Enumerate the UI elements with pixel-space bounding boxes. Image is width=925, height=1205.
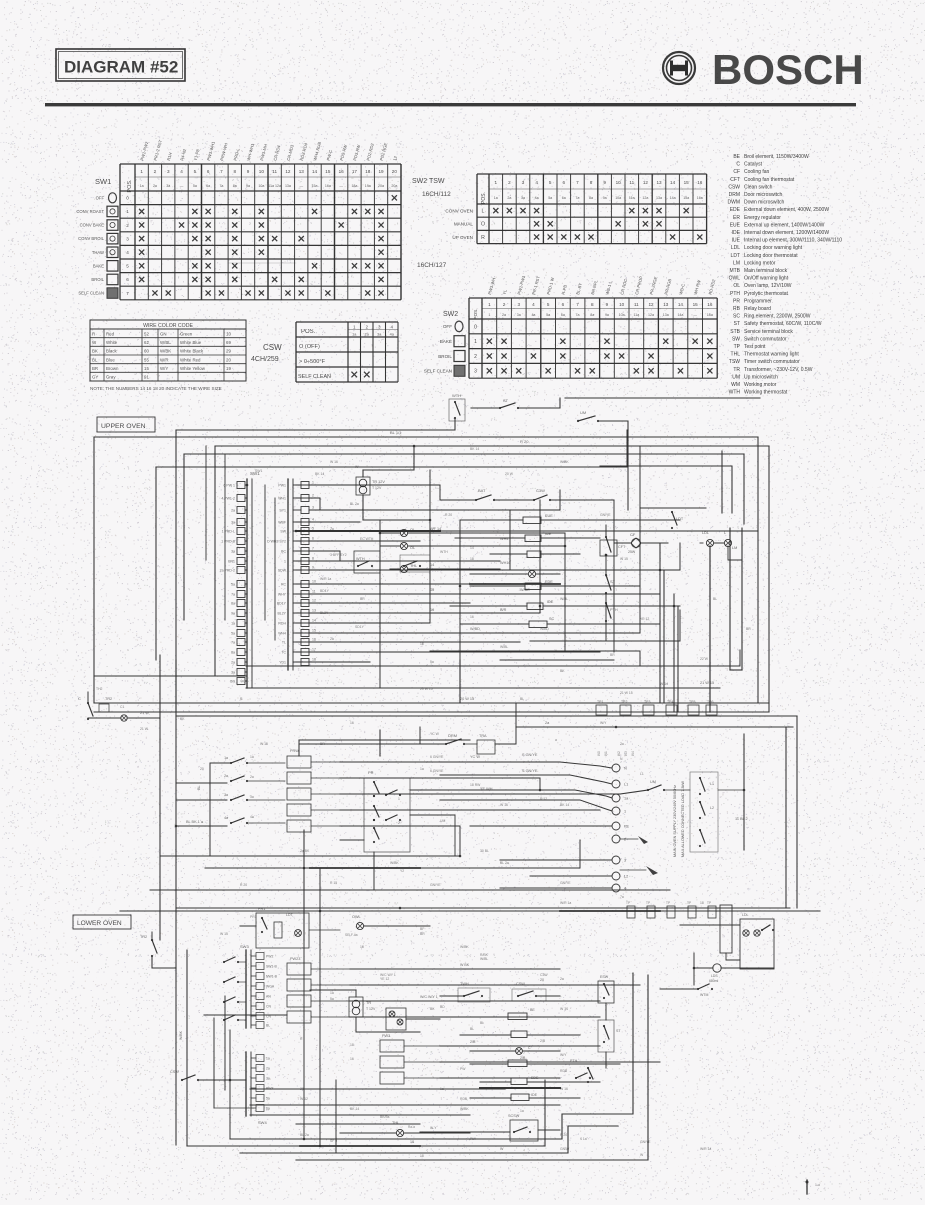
svg-text:UM: UM: [580, 410, 586, 415]
svg-text:RDB: RDB: [460, 1097, 468, 1101]
switch WTM lower right: [697, 988, 699, 990]
svg-text:13: 13: [299, 169, 305, 174]
svg-text:IDE: IDE: [531, 1093, 538, 1097]
svg-text:W/BK: W/BK: [460, 945, 469, 949]
svg-text:1: 1: [495, 180, 498, 185]
svg-text:EDE: EDE: [531, 1076, 539, 1080]
svg-text:21 W 15: 21 W 15: [700, 681, 714, 685]
svg-text:W 16: W 16: [330, 460, 338, 464]
svg-text:POS.: POS.: [481, 192, 487, 204]
svg-text:9a: 9a: [603, 196, 607, 200]
svg-text:W 14: W 14: [660, 682, 668, 686]
svg-text:W1: W1: [604, 751, 608, 756]
switch DWM top right: [577, 420, 579, 422]
svg-text:1a: 1a: [520, 1109, 524, 1113]
svg-text:BR: BR: [420, 932, 425, 936]
svg-text:C3W: C3W: [540, 973, 548, 977]
svg-text:13: 13: [663, 302, 669, 307]
svg-text:PW1: PW1: [278, 484, 286, 488]
svg-text:18: 18: [312, 658, 316, 662]
svg-text:14: 14: [312, 619, 316, 623]
svg-text:14: 14: [470, 546, 474, 550]
svg-text:Ring element, 2200W, 2500W: Ring element, 2200W, 2500W: [744, 314, 811, 320]
svg-text:2: 2: [312, 494, 314, 498]
svg-text:8a: 8a: [590, 313, 594, 317]
svg-text:POS.: POS.: [301, 329, 316, 335]
svg-text:3a: 3a: [250, 795, 254, 799]
svg-text:12: 12: [312, 599, 316, 603]
svg-text:W0: W0: [597, 751, 601, 756]
svg-text:BROIL: BROIL: [91, 277, 104, 282]
svg-text:W/BK: W/BK: [560, 460, 569, 464]
svg-text:18: 18: [470, 557, 474, 561]
svg-text:White Yellow: White Yellow: [180, 366, 206, 371]
svg-text:9a: 9a: [246, 184, 250, 188]
svg-text:Brown: Brown: [106, 366, 119, 371]
svg-text:1: 1: [126, 209, 129, 214]
svg-text:WH4: WH4: [278, 632, 286, 636]
svg-text:19: 19: [378, 169, 384, 174]
svg-text:SELF CLEAN: SELF CLEAN: [298, 374, 331, 380]
svg-text:DRM: DRM: [729, 192, 740, 198]
svg-text:1a: 1a: [330, 991, 334, 995]
svg-text:4: 4: [624, 887, 626, 891]
svg-text:TP: TP: [666, 901, 670, 905]
svg-text:W2: W2: [617, 751, 621, 756]
svg-text:1: 1: [488, 313, 490, 317]
svg-text:SW2 TSW: SW2 TSW: [412, 178, 445, 185]
svg-text:5a: 5a: [231, 583, 235, 587]
svg-text:TRA: TRA: [479, 734, 487, 738]
svg-text:2a: 2a: [153, 184, 157, 188]
svg-text:4CH/259: 4CH/259: [251, 356, 279, 363]
svg-text:4: 4: [180, 169, 183, 174]
svg-text:9a: 9a: [605, 313, 609, 317]
svg-text:S GN/YE: S GN/YE: [522, 753, 538, 757]
svg-text:14: 14: [670, 180, 676, 185]
left DRM switch: [87, 702, 89, 704]
SCSW switch bottom: [510, 1120, 538, 1141]
svg-text:UM: UM: [440, 819, 445, 823]
svg-text:12: 12: [285, 169, 291, 174]
warning lamp THL: [400, 565, 407, 572]
svg-text:SW1-B: SW1-B: [266, 965, 277, 969]
svg-text:17: 17: [312, 648, 316, 652]
svg-text:20a: 20a: [391, 184, 397, 188]
svg-text:W 16: W 16: [560, 1087, 568, 1091]
svg-text:Relay board: Relay board: [744, 306, 771, 312]
svg-text:LDL: LDL: [742, 913, 748, 917]
svg-text:Down microswitch: Down microswitch: [744, 200, 785, 206]
svg-text:3a: 3a: [517, 313, 521, 317]
svg-text:15a: 15a: [312, 184, 318, 188]
svg-text:ER: ER: [733, 215, 740, 221]
svg-text:IUE: IUE: [732, 238, 741, 244]
svg-text:Transformer, ~230V-12V, 0.5W: Transformer, ~230V-12V, 0.5W: [744, 367, 813, 373]
svg-text:1 PRD-L: 1 PRD-L: [222, 530, 235, 534]
svg-text:DRM: DRM: [448, 733, 457, 738]
svg-text:Timer switch commutator: Timer switch commutator: [744, 359, 800, 365]
svg-text:SC: SC: [733, 314, 740, 320]
svg-text:R 12: R 12: [540, 797, 547, 801]
svg-text:5a: 5a: [193, 184, 197, 188]
svg-text:LM: LM: [732, 546, 737, 550]
svg-text:18: 18: [410, 1140, 414, 1144]
svg-text:16: 16: [470, 615, 474, 619]
svg-text:GY: GY: [92, 375, 98, 380]
svg-text:W/BK: W/BK: [460, 1107, 469, 1111]
svg-text:12: 12: [643, 180, 649, 185]
svg-text:PRW: PRW: [290, 749, 299, 753]
connector strip SW1: [246, 479, 248, 688]
svg-text:BK: BK: [180, 717, 185, 721]
lamp LDL: [706, 539, 713, 546]
svg-text:MAIN OVEN SUPPLY 230V/240V 50/: MAIN OVEN SUPPLY 230V/240V 50/60Hz: [673, 785, 677, 857]
svg-text:PR: PR: [733, 298, 740, 304]
svg-text:5a: 5a: [548, 196, 552, 200]
svg-text:91: 91: [144, 375, 149, 380]
svg-text:BR: BR: [746, 627, 751, 631]
svg-text:11: 11: [629, 180, 634, 185]
svg-text:6: 6: [562, 302, 565, 307]
svg-text:C3W: C3W: [536, 488, 545, 493]
svg-text:BL 2a: BL 2a: [350, 502, 359, 506]
svg-text:5: 5: [549, 180, 552, 185]
svg-text:BR: BR: [320, 742, 325, 746]
svg-text:BAKE: BAKE: [93, 263, 104, 268]
svg-text:21 W: 21 W: [140, 711, 149, 715]
svg-text:Catalyst: Catalyst: [744, 162, 763, 168]
svg-text:Ra-a: Ra-a: [408, 1125, 415, 1129]
svg-text:BL: BL: [470, 1027, 474, 1031]
svg-text:IUE: IUE: [545, 532, 552, 536]
svg-text:Door microswitch: Door microswitch: [744, 192, 783, 198]
svg-text:1-a: 1-a: [815, 1183, 820, 1187]
svg-text:1a: 1a: [494, 196, 498, 200]
cluster boxes lower 2: [380, 1040, 404, 1052]
svg-text:ST: ST: [503, 398, 509, 403]
svg-text:10: 10: [616, 180, 622, 185]
svg-text:BL: BL: [197, 785, 201, 790]
svg-text:TR2: TR2: [140, 935, 147, 939]
svg-text:2/B: 2/B: [540, 1039, 546, 1043]
svg-text:6: 6: [207, 169, 210, 174]
svg-text:R 20: R 20: [560, 1133, 567, 1137]
svg-text:OFF: OFF: [443, 324, 452, 329]
svg-text:10a: 10a: [615, 196, 621, 200]
svg-text:4: 4: [126, 250, 129, 255]
svg-text:2: 2: [503, 302, 506, 307]
svg-text:Internal up element, 300W/1110: Internal up element, 300W/1110, 340W/111…: [744, 238, 842, 244]
svg-text:W/BK: W/BK: [520, 588, 530, 592]
svg-text:TL: TL: [282, 641, 286, 645]
svg-text:CONV ROAST: CONV ROAST: [76, 209, 104, 214]
svg-text:12a: 12a: [642, 196, 648, 200]
svg-text:Y2: Y2: [400, 869, 404, 873]
element EUE: [523, 517, 541, 524]
svg-text:18a: 18a: [351, 184, 357, 188]
svg-text:14: 14: [430, 563, 434, 567]
svg-text:21 W 15: 21 W 15: [620, 691, 633, 695]
svg-text:WGA: WGA: [266, 985, 275, 989]
svg-text:IDE: IDE: [732, 230, 741, 236]
svg-text:R 20: R 20: [445, 513, 452, 517]
svg-text:TP5: TP5: [689, 700, 695, 704]
svg-text:9: 9: [606, 302, 609, 307]
svg-text:Programmer: Programmer: [744, 298, 772, 304]
svg-text:CSW: CSW: [263, 343, 282, 352]
svg-text:DWM: DWM: [728, 200, 741, 206]
svg-text:18: 18: [700, 901, 704, 905]
svg-text:WTH: WTH: [452, 393, 461, 398]
svg-text:> 0÷500°F: > 0÷500°F: [299, 359, 326, 365]
svg-text:CSW: CSW: [728, 184, 740, 190]
svg-text:2/B: 2/B: [470, 1040, 476, 1044]
junction dots: [246, 484, 249, 487]
svg-text:SELF-aa: SELF-aa: [345, 933, 358, 937]
svg-text:SY1: SY1: [279, 509, 286, 513]
lower mid horizontals: [250, 1104, 560, 1106]
working thermostat WTH: [354, 551, 380, 573]
svg-text:4: 4: [535, 180, 538, 185]
UPPER OVEN label: [97, 417, 155, 432]
svg-text:W/BL: W/BL: [500, 645, 508, 649]
svg-text:69: 69: [226, 340, 231, 345]
bottom bus lines: [230, 973, 633, 1139]
svg-text:BK 14: BK 14: [315, 472, 324, 476]
svg-text:15a: 15a: [683, 196, 689, 200]
bottom right mark: [806, 1180, 808, 1194]
svg-text:10: 10: [226, 331, 231, 336]
svg-text:B/R: B/R: [500, 608, 507, 612]
svg-text:—: —: [693, 313, 697, 317]
svg-text:8a: 8a: [231, 602, 235, 606]
svg-text:4 PW1-2: 4 PW1-2: [221, 497, 235, 501]
svg-text:W 14: W 14: [560, 1007, 568, 1011]
svg-text:W/BL: W/BL: [160, 340, 171, 345]
svg-text:5a: 5a: [430, 660, 434, 664]
svg-text:W/R 1a: W/R 1a: [560, 901, 571, 905]
extra verticals upper right: [613, 500, 615, 652]
svg-text:7: 7: [576, 302, 579, 307]
svg-text:7: 7: [576, 180, 579, 185]
svg-text:Main terminal block: Main terminal block: [744, 268, 788, 274]
svg-text:1: 1: [398, 797, 400, 801]
svg-text:BC: BC: [281, 550, 286, 554]
svg-text:SD1Y: SD1Y: [355, 625, 365, 629]
svg-text:L2: L2: [710, 806, 714, 810]
svg-text:3a: 3a: [166, 184, 170, 188]
svg-text:13a: 13a: [285, 184, 291, 188]
svg-text:15: 15: [693, 302, 699, 307]
scan smudge segments: [296, 530, 440, 532]
bus y716 mid: [176, 715, 797, 717]
svg-text:3: 3: [126, 236, 129, 241]
svg-text:2: 2: [508, 180, 511, 185]
svg-text:CFT: CFT: [730, 177, 740, 183]
svg-text:18: 18: [420, 1154, 424, 1158]
element BE: [527, 551, 541, 558]
svg-text:BD: BD: [440, 1005, 445, 1009]
svg-text:TP: TP: [687, 901, 691, 905]
svg-text:W/BL: W/BL: [480, 957, 488, 961]
svg-text:PR: PR: [368, 770, 374, 775]
lamp OL3: [528, 570, 535, 577]
svg-text:BE: BE: [733, 154, 740, 160]
lamp left: [121, 715, 127, 721]
svg-text:10: 10: [259, 169, 265, 174]
svg-text:2a: 2a: [250, 775, 254, 779]
svg-text:UP OVEN: UP OVEN: [452, 235, 473, 240]
svg-text:LM: LM: [733, 260, 740, 266]
svg-text:17: 17: [352, 169, 358, 174]
switch ST: [605, 574, 607, 576]
svg-text:R: R: [481, 235, 485, 241]
wire loop LM tall: [729, 528, 731, 670]
svg-text:20: 20: [226, 357, 231, 362]
lamp pair box lower: [386, 1008, 406, 1030]
svg-text:THL: THL: [731, 352, 741, 358]
relay board RB mid: [287, 756, 311, 768]
svg-text:2: 2: [474, 354, 477, 360]
svg-text:4a: 4a: [531, 313, 535, 317]
svg-text:TR: TR: [733, 367, 740, 373]
OWL lamp mid: [356, 922, 363, 929]
svg-text:7: 7: [220, 169, 223, 174]
svg-text:SW: SW: [280, 530, 286, 534]
svg-text:20a: 20a: [378, 184, 384, 188]
svg-text:16: 16: [430, 588, 434, 592]
svg-text:20 W 15: 20 W 15: [420, 687, 433, 691]
svg-text:3: 3: [522, 180, 525, 185]
header rule: [45, 103, 856, 106]
svg-text:3a: 3a: [521, 196, 525, 200]
svg-text:13: 13: [312, 609, 316, 613]
svg-text:PR1: PR1: [258, 907, 265, 911]
svg-text:L1: L1: [640, 772, 644, 776]
svg-text:W/Y: W/Y: [160, 366, 168, 371]
svg-text:Cooling fan thermostat: Cooling fan thermostat: [744, 177, 795, 183]
svg-text:4a: 4a: [250, 815, 254, 819]
svg-text:RB: RB: [733, 306, 741, 312]
svg-text:TR: TR: [366, 1001, 371, 1005]
svg-text:IDE: IDE: [547, 600, 554, 604]
svg-text:BROIL: BROIL: [438, 354, 452, 359]
svg-text:CONV BAKE: CONV BAKE: [80, 223, 105, 228]
switch LDT: [671, 511, 673, 513]
svg-text:W/R 1a: W/R 1a: [320, 577, 331, 581]
svg-text:20: 20: [540, 978, 544, 982]
svg-text:W: W: [500, 1147, 504, 1151]
svg-text:W 15: W 15: [620, 557, 628, 561]
svg-text:3a: 3a: [266, 1077, 270, 1081]
svg-text:15: 15: [144, 366, 149, 371]
svg-text:—: —: [180, 184, 184, 188]
svg-text:14a: 14a: [670, 196, 676, 200]
svg-text:TH2: TH2: [96, 687, 103, 691]
svg-text:BL 2a: BL 2a: [300, 1133, 309, 1137]
svg-text:W/Y: W/Y: [560, 1053, 567, 1057]
svg-text:PLY: PLY: [470, 1137, 477, 1141]
svg-text:3a: 3a: [231, 550, 235, 554]
svg-text:12: 12: [648, 302, 654, 307]
svg-text:T 12V: T 12V: [366, 1007, 376, 1011]
svg-text:SW1: SW1: [95, 177, 111, 186]
svg-text:TP3: TP3: [644, 700, 650, 704]
svg-text:5a: 5a: [266, 1097, 270, 1101]
svg-text:PE: PE: [624, 825, 630, 829]
left vertical rail: [159, 655, 161, 940]
svg-text:52: 52: [144, 331, 149, 336]
OWL lamp bottom: [396, 1129, 403, 1136]
switch PTH: [605, 602, 607, 604]
svg-text:EUE: EUE: [730, 222, 741, 228]
svg-text:Test point: Test point: [744, 344, 766, 350]
svg-text:WBF: WBF: [278, 521, 286, 525]
svg-text:0: 0: [474, 324, 477, 330]
svg-text:7a: 7a: [219, 184, 223, 188]
lamp OL lower: [713, 964, 721, 972]
svg-text:TP1: TP1: [597, 700, 603, 704]
svg-text:SW: SW: [732, 336, 740, 342]
svg-text:16a: 16a: [707, 313, 713, 317]
svg-text:LDT: LDT: [286, 913, 293, 917]
svg-text:Blue: Blue: [106, 357, 115, 362]
svg-text:N: N: [624, 767, 627, 771]
svg-text:TP: TP: [626, 901, 630, 905]
svg-text:Safety thermostat, 60C/W, 110C: Safety thermostat, 60C/W, 110C/W: [744, 321, 822, 327]
svg-text:10: 10: [312, 580, 316, 584]
svg-text:2/B: 2/B: [520, 1056, 526, 1060]
svg-text:L1: L1: [710, 782, 714, 786]
svg-text:3: 3: [517, 302, 520, 307]
svg-text:CSW: CSW: [516, 982, 525, 986]
svg-text:BK: BK: [430, 1007, 435, 1011]
lower TR transformer: [349, 997, 363, 1017]
svg-text:YC W: YC W: [430, 732, 440, 736]
svg-text:BK 14: BK 14: [560, 803, 569, 807]
svg-text:CF: CF: [733, 169, 740, 175]
lower right element column: [508, 1013, 527, 1020]
svg-text:White Black: White Black: [180, 349, 204, 354]
svg-text:Up microswitch: Up microswitch: [744, 374, 778, 380]
ESW switch column lower: [598, 981, 614, 1003]
svg-text:BE: BE: [530, 1008, 535, 1012]
svg-text:BK: BK: [560, 669, 565, 673]
title box DIAGRAM #52: [56, 49, 185, 81]
connector strip SW1 pins right: [287, 479, 289, 670]
switch SW-b: [533, 499, 535, 501]
switch at strip E left: [181, 1079, 183, 1081]
wire bus rows: [296, 485, 440, 500]
svg-text:2: 2: [398, 821, 400, 825]
svg-text:RDH: RDH: [278, 622, 286, 626]
svg-text:1a: 1a: [250, 755, 254, 759]
svg-text:1: 1: [140, 169, 143, 174]
svg-text:6 GN/YE: 6 GN/YE: [430, 769, 444, 773]
svg-text:C: C: [528, 1046, 531, 1050]
svg-text:LDL: LDL: [702, 531, 709, 535]
svg-text:29: 29: [226, 349, 231, 354]
svg-text:13a: 13a: [663, 313, 669, 317]
svg-text:White Blue: White Blue: [180, 340, 202, 345]
svg-text:W 16: W 16: [500, 803, 508, 807]
lower switch pair top: [463, 995, 465, 997]
svg-text:11a: 11a: [633, 313, 639, 317]
svg-text:3a: 3a: [231, 521, 235, 525]
svg-text:—: —: [299, 184, 303, 188]
svg-text:6a: 6a: [206, 184, 210, 188]
